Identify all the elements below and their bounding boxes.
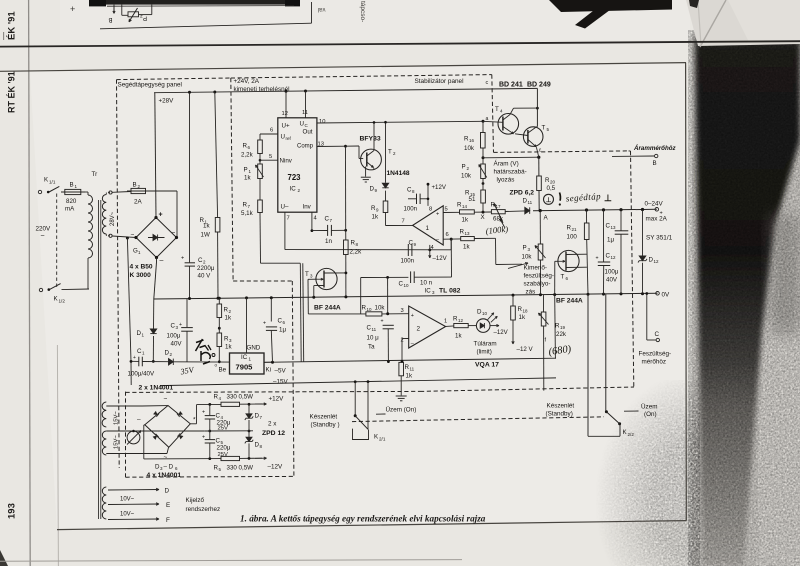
svg-text:7: 7 bbox=[287, 216, 290, 222]
svg-text:GND: GND bbox=[247, 345, 261, 352]
svg-text:IC: IC bbox=[241, 354, 248, 361]
svg-text:10: 10 bbox=[319, 119, 325, 125]
svg-text:Comp: Comp bbox=[297, 144, 314, 150]
svg-text:3: 3 bbox=[401, 308, 404, 314]
svg-text:11: 11 bbox=[372, 327, 377, 332]
svg-text:zás: zás bbox=[526, 289, 536, 296]
svg-text:17: 17 bbox=[496, 204, 502, 209]
svg-text:~: ~ bbox=[172, 230, 176, 237]
svg-text:820: 820 bbox=[66, 198, 77, 205]
svg-text:–: – bbox=[160, 257, 164, 264]
svg-text:10 μ: 10 μ bbox=[367, 335, 380, 342]
svg-text:P: P bbox=[244, 167, 248, 174]
svg-text:+: + bbox=[411, 313, 414, 319]
svg-text:+: + bbox=[181, 256, 184, 262]
svg-text:40V: 40V bbox=[606, 277, 618, 284]
svg-text:~: ~ bbox=[164, 454, 168, 461]
svg-text:rendszerhez: rendszerhez bbox=[186, 506, 221, 513]
svg-text:B: B bbox=[70, 182, 74, 189]
svg-text:Árammérőhöz: Árammérőhöz bbox=[633, 145, 677, 152]
svg-text:+: + bbox=[179, 322, 182, 328]
svg-text:220μ: 220μ bbox=[217, 445, 231, 452]
svg-text:1/2: 1/2 bbox=[59, 299, 66, 304]
svg-text:B: B bbox=[108, 16, 112, 22]
svg-text:11: 11 bbox=[528, 200, 533, 205]
svg-text:220V: 220V bbox=[36, 226, 52, 233]
svg-text:0V: 0V bbox=[662, 292, 671, 299]
svg-text:Áram (V): Áram (V) bbox=[494, 159, 519, 168]
svg-text:U–: U– bbox=[281, 204, 289, 211]
svg-text:25V: 25V bbox=[218, 426, 229, 432]
svg-text:lyozás: lyozás bbox=[497, 177, 515, 184]
svg-text:—: — bbox=[0, 32, 8, 40]
svg-text:BD 241: BD 241 bbox=[499, 82, 523, 89]
svg-text:+: + bbox=[263, 321, 266, 327]
svg-text:feszültség-: feszültség- bbox=[524, 273, 554, 280]
svg-text:7905: 7905 bbox=[236, 363, 254, 372]
svg-text:F: F bbox=[166, 517, 170, 524]
svg-text:TL 082: TL 082 bbox=[439, 288, 461, 295]
svg-text:25V: 25V bbox=[218, 452, 229, 458]
svg-text:723: 723 bbox=[288, 173, 302, 182]
svg-text:12: 12 bbox=[611, 255, 617, 260]
svg-text:+: + bbox=[202, 410, 205, 416]
svg-text:Segédtápegység panel: Segédtápegység panel bbox=[118, 82, 182, 89]
svg-text:10k: 10k bbox=[464, 145, 475, 152]
svg-text:0–24V: 0–24V bbox=[645, 201, 664, 208]
svg-text:1μ: 1μ bbox=[279, 327, 286, 334]
svg-text:E: E bbox=[166, 502, 170, 509]
svg-text:10k: 10k bbox=[375, 305, 386, 312]
svg-text:18: 18 bbox=[523, 309, 529, 314]
svg-text:mérőhöz: mérőhöz bbox=[642, 359, 667, 366]
svg-text:2A: 2A bbox=[134, 199, 143, 206]
svg-text:0,5: 0,5 bbox=[547, 185, 556, 192]
svg-text:+: + bbox=[436, 212, 439, 218]
svg-text:13: 13 bbox=[465, 231, 471, 236]
svg-text:28V~: 28V~ bbox=[110, 211, 116, 226]
svg-text:2/1: 2/1 bbox=[379, 437, 386, 442]
svg-text:val: val bbox=[318, 6, 326, 12]
svg-text:2200μ: 2200μ bbox=[197, 265, 215, 272]
svg-text:12: 12 bbox=[654, 259, 660, 264]
svg-text:40 V: 40 V bbox=[198, 273, 212, 280]
svg-text:U: U bbox=[300, 121, 304, 128]
svg-text:19: 19 bbox=[560, 325, 566, 330]
svg-text:330 0,5W: 330 0,5W bbox=[227, 394, 254, 401]
svg-text:10V~: 10V~ bbox=[120, 497, 135, 503]
svg-text:1. ábra. A kettős tápegység eg: 1. ábra. A kettős tápegység egy rendszer… bbox=[240, 514, 486, 524]
svg-text:2 x: 2 x bbox=[268, 421, 277, 428]
svg-text:+: + bbox=[70, 4, 75, 14]
svg-text:B: B bbox=[133, 182, 137, 189]
svg-text:Stabilizátor panel: Stabilizátor panel bbox=[415, 78, 464, 85]
svg-text:IC: IC bbox=[425, 288, 432, 295]
svg-text:1n: 1n bbox=[325, 238, 332, 245]
svg-text:P: P bbox=[462, 164, 466, 171]
svg-text:–12V: –12V bbox=[494, 329, 509, 336]
svg-text:T: T bbox=[388, 149, 392, 156]
svg-text:⊥: ⊥ bbox=[546, 197, 552, 204]
svg-text:100μ/40V: 100μ/40V bbox=[128, 371, 155, 378]
svg-text:BF 244A: BF 244A bbox=[314, 305, 341, 312]
svg-text:2 x 1N4001: 2 x 1N4001 bbox=[139, 385, 174, 392]
svg-text:T: T bbox=[495, 106, 499, 113]
svg-text:+: + bbox=[133, 355, 136, 361]
svg-text:1k: 1k bbox=[463, 244, 470, 251]
svg-text:1/1: 1/1 bbox=[49, 180, 56, 185]
svg-text:⊥: ⊥ bbox=[604, 193, 612, 203]
svg-text:–5V: –5V bbox=[275, 368, 287, 375]
svg-text:VQA 17: VQA 17 bbox=[475, 362, 499, 369]
svg-text:1W: 1W bbox=[201, 232, 210, 239]
svg-text:10 n: 10 n bbox=[420, 280, 433, 287]
svg-text:7: 7 bbox=[402, 219, 405, 225]
svg-text:Tr: Tr bbox=[92, 171, 98, 178]
svg-text:40V: 40V bbox=[171, 341, 183, 348]
svg-text:Kimenő-: Kimenő- bbox=[524, 265, 547, 272]
svg-text:BFY33: BFY33 bbox=[360, 136, 381, 143]
svg-text:határszabá-: határszabá- bbox=[494, 169, 527, 176]
svg-text:2/2: 2/2 bbox=[628, 432, 635, 437]
svg-text:+28V: +28V bbox=[159, 98, 175, 105]
svg-text:U: U bbox=[281, 134, 285, 141]
svg-text:(On): (On) bbox=[644, 411, 657, 418]
svg-text:ÉK '91: ÉK '91 bbox=[7, 11, 18, 40]
svg-text:11: 11 bbox=[410, 367, 415, 372]
svg-text:1N4148: 1N4148 bbox=[387, 170, 410, 177]
svg-text:8: 8 bbox=[429, 207, 432, 213]
svg-text:68k: 68k bbox=[493, 216, 504, 223]
svg-text:10: 10 bbox=[482, 311, 488, 316]
svg-text:ZPD 12: ZPD 12 bbox=[262, 430, 285, 437]
svg-text:B: B bbox=[653, 160, 657, 167]
svg-text:Ki: Ki bbox=[266, 367, 272, 374]
svg-text:Készenlét: Készenlét bbox=[547, 403, 575, 410]
svg-text:Készenlét: Készenlét bbox=[310, 414, 338, 421]
svg-text:100μ: 100μ bbox=[167, 333, 181, 340]
svg-text:–12 V: –12 V bbox=[517, 346, 534, 353]
svg-text:Feszültség-: Feszültség- bbox=[639, 351, 672, 358]
svg-text:mA: mA bbox=[65, 206, 75, 213]
svg-text:+: + bbox=[596, 256, 599, 262]
svg-text:RT ÉK '91: RT ÉK '91 bbox=[7, 71, 17, 113]
svg-text:Üzem (On): Üzem (On) bbox=[386, 406, 417, 414]
svg-text:14: 14 bbox=[462, 204, 468, 209]
svg-text:~: ~ bbox=[131, 232, 135, 239]
svg-text:Be: Be bbox=[219, 367, 227, 374]
svg-text:13: 13 bbox=[611, 225, 617, 230]
svg-text:10k: 10k bbox=[461, 173, 472, 180]
svg-text:10k: 10k bbox=[522, 254, 533, 261]
svg-text:c: c bbox=[486, 80, 489, 86]
svg-text:–12V: –12V bbox=[433, 255, 448, 262]
svg-text:BD 249: BD 249 bbox=[527, 82, 551, 89]
svg-text:Inv: Inv bbox=[303, 204, 312, 211]
svg-text:2: 2 bbox=[417, 326, 421, 333]
svg-text:C: C bbox=[655, 331, 660, 338]
svg-text:T: T bbox=[542, 125, 546, 132]
svg-text:1k: 1k bbox=[225, 315, 232, 322]
svg-text:51: 51 bbox=[469, 196, 476, 203]
svg-text:ZPD 6,2: ZPD 6,2 bbox=[510, 190, 535, 197]
svg-text:~: ~ bbox=[41, 233, 45, 240]
svg-text:1k: 1k bbox=[244, 175, 251, 182]
svg-text:1μ: 1μ bbox=[607, 237, 614, 244]
svg-text:15V~: 15V~ bbox=[114, 435, 120, 449]
svg-text:K 3000: K 3000 bbox=[130, 272, 152, 279]
svg-text:1k: 1k bbox=[455, 333, 462, 340]
svg-text:1k: 1k bbox=[225, 344, 232, 351]
svg-text:5: 5 bbox=[445, 207, 448, 213]
svg-text:1k: 1k bbox=[203, 223, 210, 230]
svg-text:tápcso-: tápcso- bbox=[359, 1, 366, 22]
svg-text:10V~: 10V~ bbox=[120, 512, 135, 518]
svg-text:5: 5 bbox=[269, 154, 272, 160]
svg-text:100μ: 100μ bbox=[605, 269, 619, 276]
svg-text:Túláram: Túláram bbox=[474, 341, 497, 348]
svg-text:Ta: Ta bbox=[368, 344, 375, 351]
svg-text:T: T bbox=[561, 274, 565, 281]
svg-text:Kijelző: Kijelző bbox=[186, 497, 205, 504]
svg-text:BF 244A: BF 244A bbox=[556, 298, 583, 305]
svg-text:193: 193 bbox=[7, 503, 18, 519]
svg-text:– D: – D bbox=[164, 464, 174, 471]
svg-text:Out: Out bbox=[303, 129, 313, 136]
svg-text:12: 12 bbox=[282, 111, 288, 117]
svg-text:+12V: +12V bbox=[269, 396, 285, 403]
svg-text:+12V: +12V bbox=[432, 184, 447, 191]
svg-text:10: 10 bbox=[367, 307, 373, 312]
svg-text:330 0,5W: 330 0,5W bbox=[227, 465, 254, 472]
svg-text:4 x 1N4001: 4 x 1N4001 bbox=[147, 472, 182, 479]
svg-text:+: + bbox=[202, 435, 205, 441]
svg-text:(Standby): (Standby) bbox=[546, 411, 573, 418]
svg-text:Ninv: Ninv bbox=[280, 158, 293, 165]
svg-text:10: 10 bbox=[404, 283, 410, 288]
svg-text:–12V: –12V bbox=[268, 464, 284, 471]
svg-text:+: + bbox=[159, 212, 163, 219]
svg-text:4 x B50: 4 x B50 bbox=[130, 264, 153, 271]
svg-text:12: 12 bbox=[458, 318, 464, 323]
svg-text:100: 100 bbox=[567, 234, 578, 241]
svg-text:D: D bbox=[165, 488, 170, 495]
svg-text:(Standby ): (Standby ) bbox=[311, 422, 340, 429]
svg-text:6: 6 bbox=[270, 128, 273, 134]
svg-text:~: ~ bbox=[164, 396, 168, 403]
svg-text:P: P bbox=[523, 245, 527, 252]
svg-text:100n: 100n bbox=[404, 206, 418, 213]
svg-text:11: 11 bbox=[302, 110, 308, 116]
svg-text:+: + bbox=[381, 319, 384, 325]
svg-text:Üzem: Üzem bbox=[641, 403, 657, 411]
svg-text:(limit): (limit) bbox=[477, 349, 492, 356]
svg-text:1k: 1k bbox=[519, 314, 526, 321]
svg-text:X: X bbox=[481, 214, 485, 221]
svg-text:IC: IC bbox=[290, 186, 297, 193]
svg-text:20: 20 bbox=[550, 180, 556, 185]
svg-text:U+: U+ bbox=[282, 123, 290, 130]
svg-text:21: 21 bbox=[572, 227, 578, 232]
svg-text:1k: 1k bbox=[462, 217, 469, 224]
svg-text:100n: 100n bbox=[401, 258, 415, 265]
svg-text:1k: 1k bbox=[406, 373, 413, 380]
svg-text:1: 1 bbox=[444, 319, 447, 325]
svg-text:1k: 1k bbox=[372, 214, 379, 221]
svg-text:16: 16 bbox=[469, 138, 475, 143]
svg-text:SY 351/1: SY 351/1 bbox=[646, 235, 673, 242]
svg-text:ref: ref bbox=[286, 136, 292, 141]
svg-text:max 2A: max 2A bbox=[646, 216, 668, 223]
svg-text:6: 6 bbox=[446, 232, 449, 238]
svg-text:–: – bbox=[137, 417, 141, 424]
svg-text:22k: 22k bbox=[556, 331, 567, 338]
svg-text:1: 1 bbox=[426, 225, 430, 232]
svg-text:–15V: –15V bbox=[273, 379, 289, 386]
svg-text:szabályo-: szabályo- bbox=[524, 281, 551, 288]
svg-text:+24V, 2A: +24V, 2A bbox=[234, 78, 260, 85]
svg-text:2,2k: 2,2k bbox=[241, 152, 254, 159]
svg-text:T: T bbox=[305, 271, 309, 278]
svg-text:15V~: 15V~ bbox=[114, 411, 120, 425]
svg-text:5,1k: 5,1k bbox=[241, 210, 254, 217]
